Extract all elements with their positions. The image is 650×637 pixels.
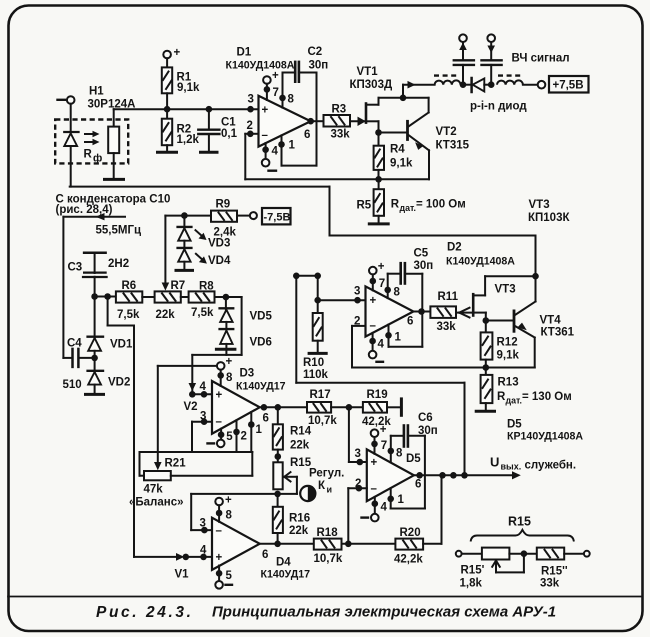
svg-text:–: –: [262, 130, 269, 142]
svg-text:R21: R21: [165, 458, 187, 470]
svg-text:VD5: VD5: [250, 311, 273, 323]
D3 pin 3 wire: [192, 411, 212, 453]
svg-text:1: 1: [256, 424, 263, 436]
wire node to D4 input V1 (long L wire): [108, 297, 185, 561]
svg-text:22k: 22k: [289, 525, 309, 537]
svg-text:10,7k: 10,7k: [314, 553, 343, 565]
svg-text:6: 6: [263, 413, 269, 425]
svg-text:7: 7: [379, 278, 385, 290]
VT3 drain lead: [473, 276, 535, 295]
VT3 gate wire with arrow: [456, 308, 472, 318]
ground bar under C1: [199, 151, 219, 154]
svg-text:+: +: [272, 70, 279, 82]
capacitor C3: [83, 253, 107, 297]
caption separator line: [8, 596, 642, 598]
svg-text:+: +: [378, 261, 385, 273]
resistor R10: [313, 276, 323, 352]
svg-text:D3: D3: [240, 368, 255, 380]
svg-text:+7,5В: +7,5В: [553, 80, 584, 92]
svg-text:R9: R9: [216, 199, 231, 211]
resistor R1: [162, 58, 172, 109]
wire R20 up to D5 output: [423, 475, 441, 544]
label R dat 130 Om: [497, 391, 572, 406]
label VT3 KP103K: [528, 199, 570, 224]
svg-text:7,5k: 7,5k: [117, 309, 140, 321]
svg-text:R15': R15': [461, 565, 485, 577]
svg-text:55,5МГц: 55,5МГц: [96, 225, 142, 237]
svg-text:R16: R16: [289, 512, 310, 524]
svg-text:VD3: VD3: [208, 238, 230, 250]
photodiode of H1: [64, 132, 78, 187]
control wire onto R7 with down arrow: [162, 216, 185, 291]
svg-text:–: –: [370, 320, 377, 332]
resistor R8: [189, 291, 215, 302]
D4 output wire: [260, 543, 314, 545]
terminal circle: [538, 81, 546, 89]
svg-text:2,4k: 2,4k: [214, 226, 237, 238]
svg-text:10,7k: 10,7k: [308, 415, 337, 427]
svg-text:+: +: [262, 105, 269, 117]
svg-text:2: 2: [241, 431, 247, 443]
label C6 30п: [418, 412, 438, 437]
svg-text:D1: D1: [237, 47, 252, 59]
svg-text:0,1: 0,1: [221, 128, 238, 140]
ground bar under VD2: [84, 393, 105, 396]
svg-text:R14: R14: [290, 425, 312, 437]
wire R8 to VD5 node: [215, 296, 226, 298]
D1 output wire: [311, 120, 324, 122]
svg-text:1: 1: [395, 332, 402, 344]
label R20 42,2k: [394, 527, 423, 566]
label R7 22k: [156, 280, 186, 321]
optocoupler H1 dashed box: [55, 120, 128, 164]
label C4 510: [63, 338, 83, 392]
brace over R15 detail: [471, 530, 574, 542]
op-amp D4: [212, 518, 268, 570]
wire R18-R20: [342, 543, 396, 545]
wire C3 node to R6: [95, 296, 116, 298]
trimmer R15': [482, 548, 510, 560]
svg-text:служебн.: служебн.: [525, 460, 577, 472]
D3 balance bottom wire: [140, 451, 253, 453]
svg-text:дат.: дат.: [506, 396, 522, 406]
ground bar under R-phi: [103, 178, 125, 181]
svg-text:R10: R10: [303, 357, 324, 369]
diode VD2: [88, 358, 103, 393]
resistor R17: [307, 402, 331, 413]
wire to +7,5V terminal: [523, 84, 538, 86]
svg-text:-7,5В: -7,5В: [264, 212, 291, 224]
R15' wiper arrow to junction: [492, 554, 524, 573]
svg-text:6: 6: [415, 479, 421, 491]
svg-text:= 100 Ом: = 100 Ом: [416, 199, 466, 211]
wire R3 to VT1 gate: [350, 120, 365, 122]
transistor VT1 channel bar: [365, 104, 368, 123]
svg-text:КТ361: КТ361: [541, 327, 575, 339]
svg-text:1,8k: 1,8k: [460, 578, 483, 590]
svg-text:110k: 110k: [303, 369, 329, 381]
label R18 10,7k: [314, 527, 343, 565]
svg-text:ф: ф: [93, 153, 102, 165]
feedback rail from D1 pin2 to VT2 emitter: [245, 178, 429, 180]
svg-text:30п: 30п: [309, 59, 329, 71]
resistor R16: [273, 494, 283, 544]
resistor R3: [324, 115, 351, 127]
bypass loop around VD5 VD6: [192, 297, 241, 355]
svg-text:КТ315: КТ315: [436, 140, 470, 152]
D3 pin 8 and plus terminal: [217, 356, 233, 386]
D1 pin 4 supply: [262, 143, 279, 171]
D2 pin 8: [388, 274, 401, 299]
label D4 K140UD17: [261, 557, 311, 581]
resistor R14: [273, 407, 283, 462]
svg-text:К: К: [318, 480, 326, 492]
label VT1: [350, 66, 393, 91]
inductor L2 with core: [497, 76, 523, 85]
label R15' 1,8k: [460, 565, 485, 590]
R19 right end T-bar: [387, 397, 401, 416]
diode VD6: [220, 329, 234, 355]
capacitor C5 feedback loop: [388, 263, 423, 347]
svg-text:R12: R12: [497, 336, 518, 348]
op-amp D2: [366, 286, 414, 336]
capacitor C1: [198, 109, 219, 151]
D1 pin 1: [282, 135, 296, 165]
label C2 30п: [308, 46, 329, 71]
svg-text:8: 8: [226, 372, 233, 384]
capacitor C2 feedback loop pins 8-1: [282, 62, 317, 166]
label C3 2H2: [68, 258, 130, 274]
wire R7-R8: [181, 296, 189, 298]
transistor VT2: [408, 113, 430, 180]
label D3 K140UD17: [236, 368, 286, 393]
D5 pin 8: [391, 436, 403, 463]
label R16 22k: [289, 512, 310, 537]
svg-text:К140УД17: К140УД17: [261, 569, 311, 581]
D4 pin 3 feedback wire: [191, 494, 212, 530]
label D2: [446, 242, 515, 268]
ground bar under R5: [368, 222, 390, 225]
D4 pin 8 supply: [215, 495, 232, 522]
transistor VT3 channel bar: [472, 294, 475, 315]
svg-text:510: 510: [63, 379, 82, 391]
resistor R6: [116, 291, 142, 302]
label VT2 КТ315: [436, 126, 470, 152]
svg-text:+: +: [371, 457, 378, 469]
label R14 22k: [290, 425, 312, 451]
diode VD5: [220, 297, 234, 330]
svg-text:47k: 47k: [144, 484, 164, 496]
svg-text:8: 8: [396, 448, 403, 460]
svg-text:VT1: VT1: [357, 66, 379, 78]
svg-text:VT4: VT4: [540, 315, 562, 327]
svg-text:R5: R5: [357, 200, 372, 212]
svg-text:30п: 30п: [414, 260, 434, 272]
svg-text:КП103К: КП103К: [528, 212, 570, 224]
label R15'' 33k: [540, 566, 568, 590]
note from capacitor C10: [56, 194, 171, 216]
svg-text:VT2: VT2: [436, 126, 457, 138]
D5 pin 1: [391, 488, 405, 508]
label R6 7,5k: [117, 280, 140, 321]
VT1 source lead: [366, 121, 379, 132]
D2 output wire: [413, 311, 430, 313]
label R17 10,7k: [308, 389, 337, 427]
svg-text:R15'': R15'': [541, 566, 568, 578]
resistor R19: [363, 402, 387, 413]
main input wire node A: [114, 108, 259, 110]
svg-text:+: +: [216, 552, 223, 564]
svg-text:ВЧ сигнал: ВЧ сигнал: [512, 53, 570, 65]
long wire H1 cathode rail to VT3 drain: [70, 187, 536, 277]
svg-text:К140УД17: К140УД17: [236, 381, 286, 393]
D3 pin 2: [237, 420, 247, 452]
svg-text:2Н2: 2Н2: [108, 258, 129, 270]
D1 pin 2 wire to rail: [245, 120, 258, 179]
svg-text:+: +: [370, 295, 377, 307]
label R2 1,2k: [177, 123, 200, 146]
svg-text:R6: R6: [122, 280, 137, 292]
svg-text:V1: V1: [175, 569, 190, 581]
R15 detail right terminal: [584, 551, 590, 557]
svg-text:VD6: VD6: [250, 337, 272, 349]
svg-text:42,2k: 42,2k: [394, 554, 423, 566]
svg-text:5: 5: [226, 570, 233, 582]
svg-text:22k: 22k: [290, 439, 310, 451]
svg-text:VT3: VT3: [495, 284, 516, 296]
wire VD3 node to R9: [184, 215, 211, 217]
resistor R5: [374, 179, 384, 223]
label R9 2,4k: [214, 199, 237, 239]
wire to D3 input V2 with down arrow: [189, 355, 197, 394]
wire R21 wiper feed to D3 plus terminal: [158, 365, 217, 367]
svg-text:Рис. 24.3.: Рис. 24.3.: [96, 604, 194, 621]
R15 detail left terminal: [456, 551, 462, 557]
svg-text:–: –: [216, 525, 223, 537]
svg-text:дат.: дат.: [400, 203, 416, 213]
ground bar under R13: [475, 410, 496, 413]
svg-text:Регул.: Регул.: [309, 468, 344, 480]
svg-text:7: 7: [273, 87, 279, 99]
label R1 9,1k: [177, 72, 200, 94]
resistor R9: [211, 211, 237, 222]
light arrow VD4: [196, 254, 207, 264]
resistor R15'': [537, 548, 564, 560]
D2 pin 4 supply: [369, 333, 385, 362]
resistor R13: [481, 368, 493, 411]
D2 pin 2 wire to current sense rail: [352, 316, 366, 368]
svg-text:С5: С5: [414, 248, 429, 260]
resistor R4: [374, 133, 384, 180]
op-amp D5: [367, 449, 422, 501]
ground bar under R2: [156, 151, 178, 154]
label R3 33k: [331, 104, 351, 141]
label R-phi: [84, 149, 103, 165]
svg-text:4: 4: [272, 146, 279, 158]
svg-text:+: +: [225, 495, 232, 507]
label Regul Ki: [309, 468, 344, 495]
D1 pin 8: [283, 73, 295, 108]
label R4 9,1k: [390, 144, 413, 170]
R21 wiper arrow: [154, 366, 162, 470]
feedback link D5 output to D2 input: [296, 276, 464, 476]
resistor R12: [481, 332, 493, 367]
svg-text:R17: R17: [310, 389, 331, 401]
svg-text:4: 4: [381, 502, 388, 514]
svg-text:1: 1: [289, 140, 296, 152]
svg-text:4: 4: [378, 339, 385, 351]
svg-text:КР140УД1408А: КР140УД1408А: [507, 431, 583, 443]
wire R6-R7: [142, 296, 154, 298]
label U vyh sluzhebn: [490, 455, 576, 472]
svg-text:8: 8: [394, 287, 401, 299]
svg-text:9,1k: 9,1k: [390, 158, 413, 170]
svg-text:8: 8: [226, 510, 233, 522]
resistor R2: [162, 109, 172, 151]
capacitor C4: [63, 349, 94, 367]
label 47k Balans: [129, 484, 184, 509]
resistor R7: [155, 291, 181, 302]
D4 pin 5 supply: [215, 566, 232, 589]
D3 output wire: [260, 406, 307, 408]
potentiometer R15: [273, 462, 297, 494]
bar under VD6: [215, 348, 237, 351]
svg-text:R7: R7: [171, 280, 186, 292]
light arrow VD3: [196, 230, 207, 240]
VT1 gate arrow: [358, 117, 366, 126]
label H1: [88, 86, 136, 111]
svg-text:+: +: [226, 356, 233, 368]
current sense rail to VT4 emitter: [352, 367, 535, 369]
svg-text:9,1k: 9,1k: [177, 82, 200, 94]
D5 output wire with arrow: [414, 471, 521, 479]
svg-text:8: 8: [288, 94, 295, 106]
D5 pin 2 wire: [348, 478, 367, 544]
svg-text:R11: R11: [438, 291, 459, 303]
label C5 30п: [414, 248, 434, 272]
VT1 drain lead: [366, 98, 403, 105]
svg-text:R19: R19: [367, 389, 388, 401]
svg-text:33k: 33k: [437, 321, 457, 333]
light arrows H1: [85, 131, 100, 145]
svg-text:С6: С6: [418, 412, 433, 424]
+7,5V supply box: [549, 76, 589, 93]
svg-text:1,2k: 1,2k: [177, 134, 200, 146]
resistor R20: [395, 539, 423, 550]
svg-text:6: 6: [407, 316, 413, 328]
svg-text:C1: C1: [221, 117, 236, 129]
wire: [462, 553, 482, 555]
svg-text:VT3: VT3: [529, 199, 550, 211]
label R11 33k: [437, 291, 459, 333]
ground bar under R10: [308, 352, 328, 355]
wire to right terminal: [564, 553, 584, 555]
label D5 KR140UD1408A: [507, 419, 583, 443]
svg-text:7: 7: [381, 440, 387, 452]
svg-text:+: +: [216, 389, 223, 401]
svg-text:R18: R18: [317, 527, 339, 539]
terminal circle: [250, 212, 257, 219]
svg-text:С3: С3: [68, 261, 83, 273]
svg-text:К140УД1408А: К140УД1408А: [446, 256, 515, 268]
svg-text:33k: 33k: [331, 129, 351, 141]
svg-text:вых.: вых.: [501, 462, 522, 472]
label D1: [226, 47, 295, 72]
label R8 7,5k: [191, 280, 214, 319]
svg-text:Принципиальная электрическая с: Принципиальная электрическая схема АРУ-1: [212, 604, 556, 621]
svg-text:H1: H1: [89, 86, 104, 98]
photoresistor R-phi: [108, 109, 119, 178]
svg-text:2: 2: [354, 316, 360, 328]
svg-text:3: 3: [354, 285, 360, 297]
svg-text:R4: R4: [390, 144, 405, 156]
svg-text:7,5k: 7,5k: [191, 307, 214, 319]
diode VD3: [178, 216, 192, 249]
svg-text:VD4: VD4: [208, 255, 231, 267]
D1 pin 7 supply: [263, 70, 279, 100]
svg-text:1: 1: [398, 494, 405, 506]
svg-text:5: 5: [226, 431, 233, 443]
svg-text:VD1: VD1: [110, 339, 133, 351]
svg-text:D5: D5: [406, 453, 421, 465]
wire VT3 source to VT4 base: [486, 320, 514, 322]
svg-text:R20: R20: [400, 527, 421, 539]
wire terminal to photodiode: [70, 104, 72, 132]
op-amp D3: [212, 381, 269, 434]
resistor R11: [430, 306, 456, 318]
D3 pin 1: [251, 412, 262, 452]
D3 pin 5 supply: [208, 429, 234, 447]
svg-text:U: U: [490, 455, 499, 470]
D2 pin 1: [389, 325, 402, 347]
svg-text:R3: R3: [332, 104, 347, 116]
annotation wire to C10 with left arrow: [63, 213, 125, 358]
svg-text:22k: 22k: [156, 309, 176, 321]
ground bar under VD4: [175, 269, 195, 272]
p-i-n diode: [463, 78, 491, 92]
D2 pin 7 supply: [369, 261, 385, 291]
wire R15' to R15'': [509, 553, 536, 555]
svg-text:p-i-n диод: p-i-n диод: [470, 101, 527, 113]
svg-text:3: 3: [248, 94, 254, 106]
svg-text:R13: R13: [498, 376, 519, 388]
supply terminal plus of R1: [163, 47, 180, 59]
inductor L1 with core: [434, 76, 461, 85]
svg-text:КП303Д: КП303Д: [350, 79, 393, 91]
VT3 source lead: [473, 313, 486, 333]
label C1 0,1: [221, 117, 238, 140]
svg-text:6: 6: [304, 129, 310, 141]
wire R17-R19: [331, 406, 363, 408]
D2 pin 3 input wire: [318, 285, 366, 300]
svg-text:и: и: [327, 485, 333, 495]
svg-text:42,2k: 42,2k: [362, 416, 391, 428]
svg-text:С4: С4: [67, 338, 82, 350]
wire R9 to -7,5V terminal: [237, 215, 250, 217]
svg-text:D5: D5: [507, 419, 522, 431]
transistor VT4: [514, 276, 536, 367]
svg-text:= 130 Ом: = 130 Ом: [522, 391, 572, 403]
wiper node wire to D4 loop: [191, 493, 297, 495]
svg-text:К140УД1408А: К140УД1408А: [226, 59, 295, 71]
svg-text:–: –: [371, 483, 378, 495]
coupling capacitor Ca with terminal: [454, 34, 474, 84]
svg-text:3: 3: [355, 448, 361, 460]
svg-text:D2: D2: [447, 242, 462, 254]
svg-text:R: R: [84, 149, 93, 161]
svg-text:R: R: [391, 199, 400, 211]
svg-text:6: 6: [262, 549, 268, 561]
